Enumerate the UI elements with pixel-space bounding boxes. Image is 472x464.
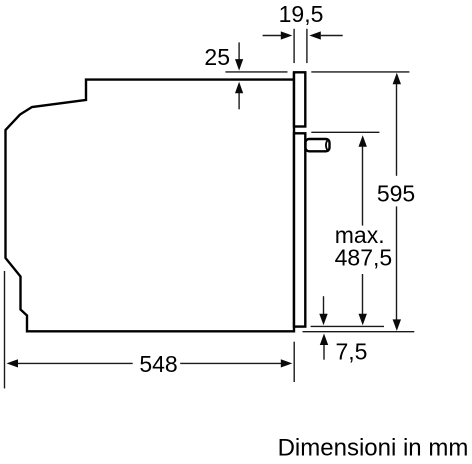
top right extension line [311,71,409,73]
dim 487,5 top arrow head [359,135,367,147]
dim 19,5 right extension line [306,29,308,63]
dim 548 line left segment [17,362,133,364]
oven body outline [6,72,295,331]
svg-text:595: 595 [377,180,415,206]
dim 487,5 vertical line upper [362,143,364,226]
dim 25 down arrow [238,42,240,60]
dim 19,5 left extension line [293,29,295,63]
dim 487,5 bottom arrow head [359,314,367,326]
dim 548 right arrow head [281,359,293,367]
dim 19,5 left arrow [263,35,282,37]
svg-text:548: 548 [139,351,177,377]
dim 25 up arrow [238,93,240,109]
body bottom extension line [303,331,415,333]
svg-text:19,5: 19,5 [279,1,324,27]
handle end cap arc [326,140,328,150]
control panel [294,72,305,126]
door handle [306,139,330,151]
oven door [294,133,305,326]
svg-text:25: 25 [204,44,230,70]
dim 25 top reference line [225,71,287,73]
dim 7,5 up arrow [323,345,325,360]
svg-text:7,5: 7,5 [336,339,368,365]
dim 595 top arrow head [393,73,401,85]
dim 595 vertical line lower [396,206,398,323]
dim 487,5 vertical line lower [362,274,364,317]
dim 7,5 down arrow [323,296,325,314]
dim 595 vertical line upper [396,80,398,176]
door bottom extension line [311,325,384,327]
dim 19,5 right arrow [321,35,343,37]
svg-text:Dimensioni in mm: Dimensioni in mm [278,435,469,462]
dim 548 right extension line [293,342,295,382]
svg-text:487,5: 487,5 [335,244,393,270]
dim 548 line right segment [180,362,281,364]
door top extension line [311,131,379,133]
dim 548 left extension line [4,271,6,388]
dim 595 bottom arrow head [393,319,401,331]
dim 548 left arrow head [7,359,19,367]
